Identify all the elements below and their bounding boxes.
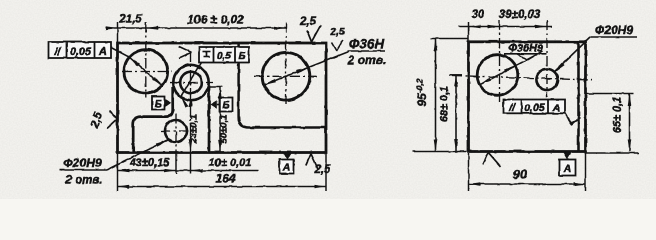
dim line 65 <box>629 94 631 152</box>
arrow on left circle upper <box>129 57 139 66</box>
dim line 95 <box>435 39 437 152</box>
label underline <box>591 36 638 38</box>
big circle Ф36Н9 <box>477 55 518 96</box>
boss inner hole (Ф20Н9) <box>180 72 202 94</box>
dim line 164 <box>118 186 327 188</box>
big circle vertical centerline <box>499 20 501 102</box>
centerline C2 horizontal <box>254 75 317 77</box>
check mark corner <box>332 43 337 52</box>
arrow 39 right <box>535 25 547 29</box>
arrow 21,5 left <box>106 26 118 30</box>
dim line 30/39 <box>458 26 552 28</box>
tolerance frame // 0,05 A <box>49 42 112 58</box>
centerline C1 vertical / ext for dims <box>145 23 147 98</box>
datum flag Б left <box>152 97 165 110</box>
extension small hole centerline below <box>175 153 177 174</box>
arrow 23 dim top <box>189 95 193 107</box>
pocket contour right wall <box>208 86 210 152</box>
arrow 68 bottom <box>454 140 458 152</box>
dim line 90 <box>469 183 586 185</box>
ext for 65 top <box>585 93 634 95</box>
datum A right view <box>564 153 572 160</box>
symbol in frame cell <box>203 51 211 53</box>
arrow 164 left <box>118 185 130 189</box>
arrow 95 bottom <box>434 140 438 152</box>
hole circle left (Ф36Н) <box>124 50 168 94</box>
arrow big circle lower <box>480 78 491 85</box>
extension boss centerline below <box>190 153 192 174</box>
label shelf <box>348 50 386 52</box>
ext left edge up <box>468 22 470 41</box>
centerline small hole horizontal <box>161 130 193 132</box>
check mark left edge <box>110 111 118 120</box>
datum A left view <box>284 154 292 160</box>
small hole (Ф20Н9) <box>165 120 187 142</box>
inner right edge line <box>577 42 580 152</box>
arrow 10 left <box>191 169 203 173</box>
arrow 65 bottom <box>628 140 632 152</box>
ext bottom right <box>585 152 640 154</box>
extension for 50 dim <box>209 86 223 88</box>
small circle vertical centerline <box>546 20 548 97</box>
ext centerline for 68 <box>449 74 462 76</box>
arrow 164 right <box>314 185 326 189</box>
arrow 95 top <box>434 39 438 51</box>
arrow 90 left <box>469 182 481 186</box>
arrow at small circle <box>555 63 565 73</box>
label underline <box>504 53 547 55</box>
arrow 43 left <box>118 169 130 173</box>
arrow 106 left <box>146 26 158 30</box>
leader/diameter across big circle <box>480 53 540 85</box>
arrow right circle lower <box>264 79 276 85</box>
centerline small hole vertical <box>175 114 177 153</box>
arrow 43/10 right <box>164 169 176 173</box>
leader frame to boss inner circle <box>181 63 202 97</box>
dim line 68 <box>455 75 457 152</box>
hole circle right (Ф36Н) <box>262 53 310 101</box>
dim line 43 / 10 <box>118 170 259 172</box>
arrow 106 right <box>274 26 286 30</box>
leader to small hole <box>107 140 168 170</box>
arrow 30 right <box>488 25 500 29</box>
arrow 30 left <box>469 25 481 29</box>
roughness bottom right view <box>483 153 489 165</box>
ext top for 95 <box>430 38 468 40</box>
boss outer circle <box>173 65 208 100</box>
ext bottom left <box>412 151 467 153</box>
centerline C2 vertical / ext for 106 dim <box>285 23 287 105</box>
centerline boss horizontal <box>170 82 213 84</box>
datum flag Б right <box>210 100 217 108</box>
arrow 90 right <box>574 182 586 186</box>
small circle Ф20Н9 <box>536 69 557 90</box>
leader frame to left circle <box>111 48 129 58</box>
centerline boss vertical <box>190 52 192 153</box>
roughness bottom right <box>306 154 311 166</box>
centerline C1 horizontal <box>122 71 172 73</box>
arrow right circle upper <box>296 68 308 74</box>
arrow at small hole <box>156 140 168 147</box>
extension line left edge up <box>117 22 119 42</box>
arrow 23 dim bottom <box>189 140 193 152</box>
leader to small circle <box>555 37 591 72</box>
arrow 68 top <box>454 75 458 87</box>
leader frame to right edge <box>565 113 572 125</box>
right view: part outline <box>469 42 586 152</box>
check mark top <box>307 31 312 42</box>
arrow 50 dim bottom <box>218 140 222 152</box>
left view: part outline <box>118 43 327 153</box>
dim line 21,5 and 106 <box>109 27 287 29</box>
extension left edge down <box>117 153 119 191</box>
arrow > at boss centerline top <box>179 47 192 53</box>
arrow on left circle lower <box>152 77 162 86</box>
arrow 65 top <box>628 94 632 106</box>
check on label <box>517 54 528 60</box>
diameter line across left circle <box>129 57 162 86</box>
arrow big circle upper <box>504 65 515 72</box>
arrow tip on boss circle <box>181 96 189 107</box>
ext right down <box>585 153 587 191</box>
arrow 50 dim top <box>218 87 222 99</box>
pocket contour left wall <box>133 87 173 153</box>
label shelf <box>59 169 107 171</box>
tolerance frame (symbol) 0,5 Б <box>199 47 249 63</box>
tolerance frame // 0,05 A right view <box>504 100 566 114</box>
ext left down <box>468 153 470 191</box>
leader to right circle <box>264 52 349 85</box>
dim line 50 <box>219 87 221 153</box>
common horizontal centerline <box>452 76 592 81</box>
step contour upper right <box>239 44 326 128</box>
extension right edge down <box>325 153 327 191</box>
